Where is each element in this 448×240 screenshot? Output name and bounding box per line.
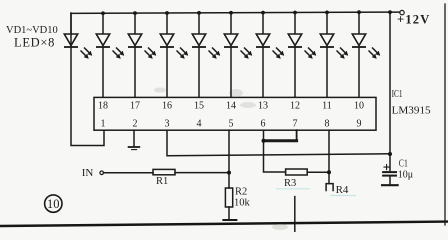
- svg-text:7: 7: [293, 119, 298, 130]
- svg-text:9: 9: [357, 119, 362, 130]
- svg-text:6: 6: [261, 119, 266, 130]
- svg-text:15: 15: [194, 101, 204, 112]
- svg-text:+12V: +12V: [397, 13, 430, 27]
- svg-text:R2: R2: [235, 187, 247, 198]
- svg-text:1: 1: [101, 119, 106, 130]
- svg-text:10μ: 10μ: [398, 170, 413, 181]
- svg-text:10: 10: [47, 197, 60, 211]
- svg-text:2: 2: [133, 119, 138, 130]
- svg-text:16: 16: [162, 101, 172, 112]
- svg-text:C1: C1: [399, 159, 408, 170]
- svg-text:IC1: IC1: [392, 89, 403, 100]
- svg-text:4: 4: [197, 119, 202, 130]
- svg-text:8: 8: [325, 119, 330, 130]
- svg-text:R4: R4: [336, 184, 349, 196]
- svg-text:11: 11: [322, 101, 332, 112]
- svg-text:10k: 10k: [234, 198, 251, 209]
- svg-text:R3: R3: [284, 178, 296, 189]
- svg-text:18: 18: [98, 101, 108, 112]
- svg-text:LM3915: LM3915: [392, 105, 432, 117]
- svg-text:IN: IN: [82, 167, 94, 179]
- svg-text:3: 3: [165, 119, 170, 130]
- svg-text:14: 14: [226, 101, 236, 112]
- svg-text:12: 12: [290, 101, 300, 112]
- svg-text:LED×8: LED×8: [14, 36, 55, 50]
- svg-text:10: 10: [354, 101, 364, 112]
- svg-text:VD1~VD10: VD1~VD10: [6, 25, 58, 36]
- svg-text:5: 5: [229, 119, 234, 130]
- svg-text:17: 17: [130, 101, 140, 112]
- svg-text:13: 13: [258, 101, 268, 112]
- svg-text:R1: R1: [156, 176, 168, 187]
